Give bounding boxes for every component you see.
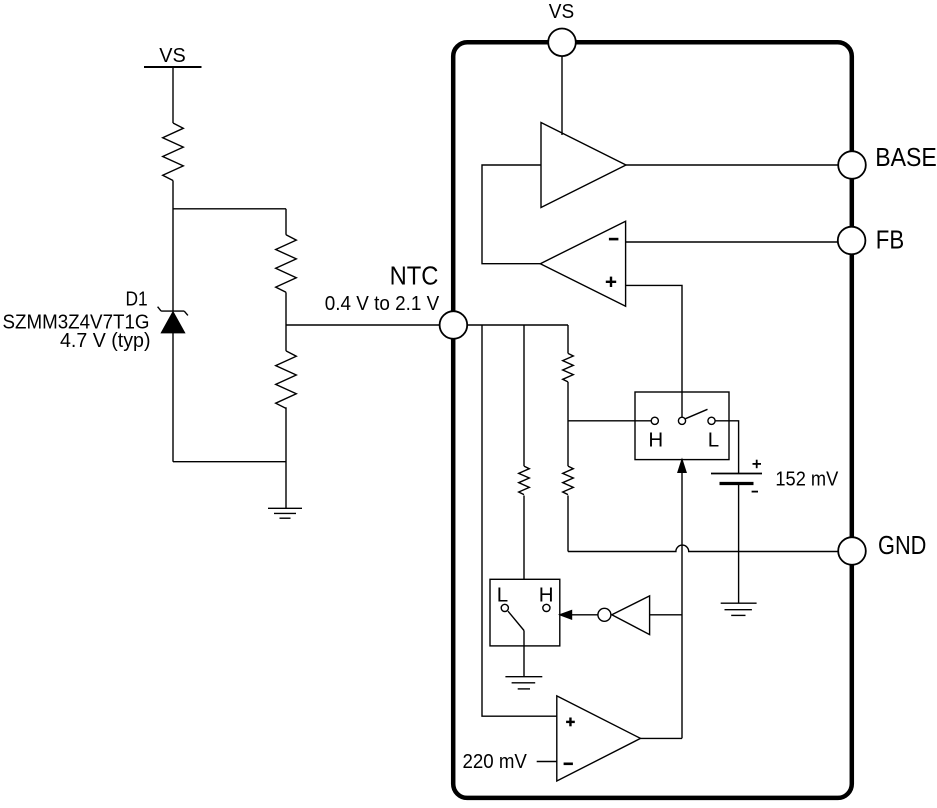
op-amp U3 comparator: [557, 696, 641, 781]
terminal FB: [838, 227, 866, 255]
switch S2 L/H: [490, 579, 560, 646]
terminal VS: [548, 29, 576, 57]
switch S1 H/L: [635, 392, 729, 460]
resistor R6: [563, 466, 574, 495]
wire: [641, 737, 683, 739]
op-amp U1 driver: [541, 123, 626, 208]
battery 152 mV: [711, 460, 762, 492]
ground (left divider): [268, 508, 302, 518]
power supply VS (left): [144, 44, 202, 67]
resistor R2: [276, 235, 297, 292]
wire: [626, 164, 840, 166]
wire: [523, 496, 525, 580]
wire GND rail with hop: [568, 545, 840, 551]
control arrow to S1: [678, 460, 686, 739]
wire: [172, 333, 174, 462]
resistor R4: [519, 466, 530, 495]
svg-text:H: H: [539, 583, 554, 606]
wire: [453, 324, 568, 326]
wire: [523, 325, 525, 466]
wire: [172, 67, 174, 123]
svg-text:BASE: BASE: [875, 144, 937, 172]
wire: [715, 421, 739, 474]
resistor R1: [163, 123, 184, 180]
svg-text:VS: VS: [159, 44, 186, 67]
svg-text:L: L: [497, 583, 508, 606]
wire: [626, 285, 682, 417]
wire: [567, 496, 569, 552]
wire: [561, 56, 563, 135]
wire: [285, 209, 287, 235]
svg-text:L: L: [708, 428, 719, 451]
wire: [650, 614, 682, 616]
terminal BASE: [838, 151, 866, 179]
inverter U4: [598, 596, 650, 635]
wire: [738, 484, 740, 604]
wire: [567, 382, 569, 466]
wire: [173, 461, 286, 463]
ground (battery): [721, 603, 757, 615]
wire: [172, 181, 174, 312]
wire: [626, 241, 840, 243]
svg-text:0.4 V to 2.1 V: 0.4 V to 2.1 V: [325, 292, 440, 315]
svg-text:220 mV: 220 mV: [463, 750, 528, 773]
wire: [482, 325, 557, 716]
wire node NTC: [286, 324, 453, 326]
terminal NTC: [440, 311, 468, 339]
IC body: [453, 42, 852, 798]
svg-text:NTC: NTC: [390, 262, 439, 290]
wire: [173, 208, 286, 210]
wire: [568, 420, 651, 422]
wire: [482, 165, 541, 264]
svg-text:VS: VS: [549, 0, 574, 23]
wire: [285, 407, 287, 508]
svg-text:FB: FB: [876, 226, 904, 254]
op-amp U2 error amp: [540, 221, 625, 306]
arrow into S2: [560, 611, 598, 619]
resistor R5: [563, 353, 574, 382]
wire: [567, 325, 569, 353]
wire: [537, 761, 557, 763]
svg-text:GND: GND: [878, 532, 926, 560]
zener diode D1: [158, 307, 188, 333]
svg-text:H: H: [648, 428, 663, 451]
terminal GND: [838, 537, 866, 565]
wire: [523, 631, 525, 677]
svg-text:D1: D1: [126, 288, 148, 311]
svg-text:4.7 V (typ): 4.7 V (typ): [60, 329, 151, 352]
ground (S2): [505, 677, 542, 689]
resistor R3: [276, 351, 297, 408]
wire: [285, 292, 287, 351]
svg-text:152 mV: 152 mV: [775, 467, 838, 490]
